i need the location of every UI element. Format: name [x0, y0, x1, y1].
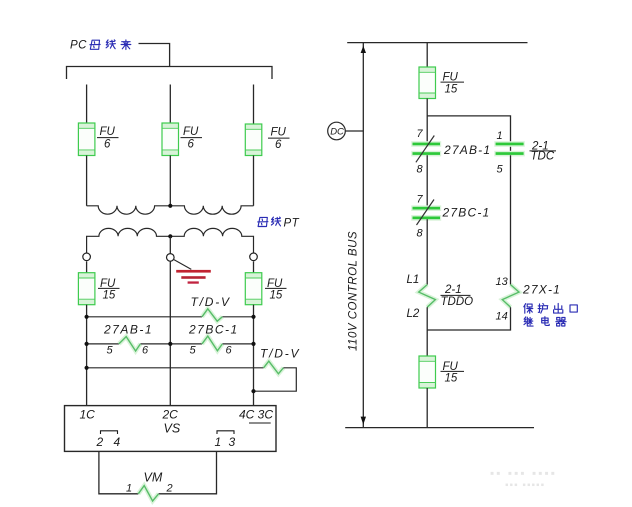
wire drop to FU3 [253, 85, 255, 125]
svg-text:FU: FU [271, 127, 287, 139]
wire row3 [87, 367, 264, 369]
svg-text:7: 7 [417, 128, 424, 140]
arrow top [361, 46, 366, 53]
label 保护出口继电器 [524, 304, 578, 327]
wire fuse to bottom bus [426, 388, 428, 428]
svg-text:15: 15 [445, 373, 458, 385]
svg-text:T/D-V: T/D-V [191, 295, 231, 309]
contact 27BC-1 (7-8 bars with slash) [411, 193, 490, 239]
wire FU1 to primary winding [86, 156, 88, 206]
node loop right [251, 389, 255, 393]
wire branch rejoin [427, 307, 510, 330]
contact 2-1 TDC (1-5 bars) [494, 130, 556, 176]
svg-text:L2: L2 [407, 308, 420, 320]
svg-text:27AB-1: 27AB-1 [103, 322, 153, 336]
svg-text:6: 6 [104, 139, 111, 151]
wire L2 down to junction [426, 307, 428, 356]
svg-text:110V CONTROL BUS: 110V CONTROL BUS [348, 231, 360, 351]
svg-text:1: 1 [126, 482, 132, 494]
wire FU2 to primary winding [169, 156, 171, 206]
wire center column [169, 262, 171, 406]
wire drop to FU2 [169, 85, 171, 124]
contact T/D-V (row3) [260, 347, 300, 374]
wire left column [86, 305, 88, 406]
svg-text:PC: PC [70, 40, 87, 52]
svg-text:▪▪ ▪▪▪ ▪▪▪▪: ▪▪ ▪▪▪ ▪▪▪▪ [490, 466, 557, 480]
fuse FU 15 (left) [78, 273, 119, 305]
bus PC (top horizontal bus with end ticks) [67, 67, 273, 80]
node row2 center [168, 342, 172, 346]
ground [174, 260, 211, 284]
svg-text:4: 4 [114, 435, 121, 449]
svg-text:TDDO: TDDO [441, 296, 474, 308]
svg-text:8: 8 [417, 163, 424, 175]
svg-text:6: 6 [188, 139, 195, 151]
svg-text:6: 6 [226, 345, 233, 357]
svg-text:2: 2 [166, 482, 173, 494]
svg-text:2C: 2C [162, 408, 179, 422]
svg-text:1: 1 [215, 435, 222, 449]
svg-text:14: 14 [496, 311, 508, 323]
svg-text:27BC-1: 27BC-1 [188, 322, 239, 336]
svg-text:7: 7 [417, 193, 424, 205]
wire between contacts [426, 155, 428, 207]
svg-text:15: 15 [103, 290, 116, 302]
svg-text:3: 3 [229, 435, 236, 449]
wire drop to FU1 [86, 85, 88, 124]
RIGHT SECTION [328, 43, 578, 491]
arrow bottom [361, 417, 366, 425]
PT primary winding [87, 206, 254, 214]
wire top to FU15 [426, 43, 428, 67]
wire row1 [87, 316, 202, 318]
node row1 left [85, 315, 89, 319]
svg-text:4C 3C: 4C 3C [239, 408, 273, 422]
svg-text:27X-1: 27X-1 [522, 283, 561, 297]
svg-text:5: 5 [497, 163, 504, 175]
svg-text:15: 15 [445, 83, 458, 95]
node row2 right [251, 342, 255, 346]
PT secondary winding [87, 228, 254, 254]
contact 2-1 TDDO (L1-L2) [407, 274, 474, 320]
contact 27AB-1 (5-6) [103, 322, 153, 356]
fuse FU 15 (bottom right) [419, 356, 464, 388]
label 母线PT [258, 217, 300, 230]
wire right branch down [510, 155, 512, 284]
svg-text:VM: VM [144, 470, 163, 484]
wire secondary center drop [169, 236, 171, 254]
terminal circle left [83, 253, 91, 261]
fuse FU 6 (right) [245, 124, 289, 156]
fuse FU 6 (middle) [162, 123, 202, 156]
svg-text:DC: DC [330, 126, 344, 137]
fuse FU 6 (left) [78, 123, 118, 156]
contact T/D-V (row1) [191, 295, 231, 321]
svg-text:13: 13 [496, 276, 509, 288]
svg-text:PT: PT [284, 218, 300, 230]
wire FU3 to primary winding [253, 156, 255, 206]
box VS [65, 406, 277, 452]
contact 27BC-1 (5-6) [188, 322, 239, 356]
wire from label to bus [139, 44, 170, 67]
node primary center [168, 204, 172, 208]
wire VS to VM right [159, 451, 217, 493]
svg-text:6: 6 [142, 345, 149, 357]
bus 110V bottom line [345, 427, 534, 429]
wire 27BC-1 to L1 [426, 219, 428, 284]
svg-text:27AB-1: 27AB-1 [443, 143, 491, 157]
wire left circle to FU15 [86, 261, 88, 272]
svg-text:FU: FU [183, 126, 199, 138]
wire row3 return loop [254, 368, 297, 391]
contact VM (1-2) [126, 470, 173, 501]
svg-text:▪▪▪ ▪▪▪▪▪: ▪▪▪ ▪▪▪▪▪ [505, 480, 545, 491]
svg-text:2-1: 2-1 [444, 284, 462, 296]
contact 27AB-1 (7-8 bars with slash) [411, 128, 491, 175]
contact 27X-1 (13-14) [496, 276, 562, 322]
fuse FU 15 (right) [245, 273, 286, 305]
svg-text:8: 8 [417, 227, 424, 239]
wire right circle to FU15 [253, 261, 255, 272]
svg-text:T/D-V: T/D-V [260, 347, 300, 361]
wire row2 [87, 343, 254, 345]
node row2 left [85, 342, 89, 346]
wire 110V control bus vertical [362, 43, 364, 428]
svg-text:15: 15 [270, 290, 283, 302]
wire FU15 down / branch split [426, 99, 428, 144]
terminal circle center [167, 254, 175, 262]
svg-text:TDC: TDC [531, 150, 555, 162]
bus 110V top line [347, 42, 527, 44]
node row1 right [251, 315, 255, 319]
fuse FU 15 (top right) [419, 67, 464, 99]
svg-text:1: 1 [497, 130, 503, 142]
wire VS to VM left [99, 451, 138, 493]
svg-text:2: 2 [96, 435, 104, 449]
source DC [328, 122, 364, 140]
svg-text:6: 6 [275, 139, 282, 151]
svg-text:5: 5 [190, 345, 197, 357]
svg-text:VS: VS [164, 421, 181, 435]
watermark [490, 466, 557, 491]
wire right column [253, 305, 255, 406]
svg-text:1C: 1C [80, 408, 96, 422]
svg-text:5: 5 [107, 345, 114, 357]
node row3 left [85, 366, 89, 370]
node secondary center [168, 234, 172, 238]
svg-text:L1: L1 [407, 274, 420, 286]
svg-text:FU: FU [100, 126, 116, 138]
label PC母线来 [70, 40, 131, 52]
terminal circle right [250, 253, 258, 261]
svg-text:27BC-1: 27BC-1 [442, 206, 491, 220]
